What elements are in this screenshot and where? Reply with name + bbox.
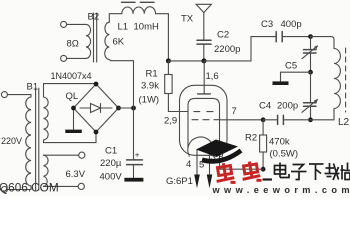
svg-text:2200p: 2200p xyxy=(214,44,240,55)
svg-text:(0.5W): (0.5W) xyxy=(270,149,299,160)
svg-text:4: 4 xyxy=(186,159,191,170)
svg-text:220V: 220V xyxy=(1,136,22,146)
terminal 6.3V bottom xyxy=(78,183,84,189)
svg-text:1N4007x4: 1N4007x4 xyxy=(51,71,92,81)
svg-text:G:6P1: G:6P1 xyxy=(166,176,193,187)
wire cathode pins 3,8 to node G xyxy=(220,148,264,169)
variable capacitor C5 lower gang xyxy=(310,72,312,102)
heater pin 5 lead with arrow xyxy=(209,150,211,176)
svg-text:TX: TX xyxy=(181,14,194,25)
wire 6.3V top xyxy=(44,154,79,156)
svg-text:L1: L1 xyxy=(118,22,129,33)
svg-text:1,6: 1,6 xyxy=(206,71,219,82)
svg-text:2,9: 2,9 xyxy=(164,116,177,127)
L2 adjustable core dashed line xyxy=(345,48,347,112)
tube cathode xyxy=(188,137,214,156)
L1 core bars xyxy=(122,1,136,3)
svg-text:+: + xyxy=(135,151,140,160)
node B+ xyxy=(131,106,136,111)
glyph dian xyxy=(275,163,290,178)
transformer B2 terminal bottom xyxy=(61,55,67,61)
svg-text:L2: L2 xyxy=(338,117,350,128)
transformer B2 6K winding xyxy=(105,22,110,59)
svg-text:C3: C3 xyxy=(261,19,273,30)
svg-text:6K: 6K xyxy=(113,37,125,48)
glyph xia xyxy=(309,164,324,180)
wire node B to C3 xyxy=(204,37,276,61)
tube inner screen structure xyxy=(188,98,220,148)
wire C4 node to L2 bottom xyxy=(311,119,335,121)
svg-text:C2: C2 xyxy=(217,30,229,41)
node A (L1/R1/C2 wire) xyxy=(166,58,171,63)
svg-text:400V: 400V xyxy=(100,172,123,183)
node bridge left xyxy=(71,106,76,111)
wire bridge output to B+ node xyxy=(119,107,134,109)
svg-text:(1W): (1W) xyxy=(139,95,160,106)
svg-text:10mH: 10mH xyxy=(134,22,159,33)
svg-text:7: 7 xyxy=(232,106,237,117)
transformer B2 core xyxy=(93,13,95,62)
tube plate bar xyxy=(198,93,211,95)
antenna TX xyxy=(196,4,211,12)
svg-text:B1: B1 xyxy=(27,82,39,93)
capacitor C2 xyxy=(197,39,211,41)
svg-text:Q606.COM: Q606.COM xyxy=(0,181,59,195)
node G (R2 bottom / cathode) xyxy=(261,167,266,172)
transformer B1 HV secondary winding xyxy=(44,84,49,143)
inductor L2 xyxy=(334,49,340,120)
transformer B1 primary winding 220V xyxy=(26,97,31,186)
terminal 6.3V top xyxy=(79,152,85,158)
svg-text:C5: C5 xyxy=(285,61,297,72)
svg-text:www.eeworm.com: www.eeworm.com xyxy=(212,185,350,195)
transformer B1 primary terminal (top) xyxy=(1,92,7,98)
wire 6.3V bottom xyxy=(44,185,79,187)
svg-text:QL: QL xyxy=(66,91,79,102)
glyph zi xyxy=(291,165,307,180)
node E (tank bottom) xyxy=(308,117,313,122)
transformer B1 primary terminal (bottom) xyxy=(1,187,7,193)
diode inside bridge xyxy=(80,107,112,109)
node F (R2 top) xyxy=(261,117,266,122)
wire screen grid to R2 node xyxy=(220,119,264,121)
node C (tank top) xyxy=(308,34,313,39)
transformer B1 core xyxy=(35,88,37,190)
wire xyxy=(7,95,31,97)
node D (between gangs) xyxy=(308,70,313,75)
wire xyxy=(67,57,86,59)
svg-text:400p: 400p xyxy=(281,19,302,30)
variable capacitor C5 upper gang xyxy=(310,37,312,50)
svg-text:C1: C1 xyxy=(105,146,117,157)
glyph zhan xyxy=(341,163,350,180)
wire R1 to grid xyxy=(168,111,187,113)
wire tank top to L2 xyxy=(311,37,335,49)
bridge rectifier QL diamond xyxy=(74,84,119,132)
wire node A to node B xyxy=(168,60,204,62)
svg-text:B2: B2 xyxy=(88,12,100,23)
svg-text:3.9k: 3.9k xyxy=(141,81,159,92)
watermark red characters 虫虫 xyxy=(214,158,262,188)
ground below C1 xyxy=(124,178,143,182)
tube screen grid (dashed) xyxy=(192,119,198,121)
svg-text:470k: 470k xyxy=(269,137,290,148)
inductor L1 xyxy=(122,7,156,14)
svg-text:200p: 200p xyxy=(277,101,298,112)
node bridge top xyxy=(94,82,99,87)
node bridge right xyxy=(116,106,121,111)
watermark text 电子下载站 xyxy=(263,163,350,181)
svg-text:R2: R2 xyxy=(245,133,257,144)
capacitor C4 xyxy=(277,115,279,124)
wire HV top to bridge xyxy=(44,83,97,85)
tube V1 envelope xyxy=(180,85,228,155)
wire node D to ground xyxy=(281,72,311,81)
wire HV bottom to bridge xyxy=(44,132,97,143)
wire xyxy=(7,186,31,190)
svg-text:R1: R1 xyxy=(146,69,158,80)
svg-text:6.3V: 6.3V xyxy=(66,169,86,180)
transformer B2 8ohm winding xyxy=(86,24,91,58)
resistor R2 xyxy=(260,135,267,152)
wire xyxy=(67,23,86,25)
node bridge bottom xyxy=(94,130,99,135)
ground (C5 rotor) xyxy=(273,81,289,85)
resistor R1 xyxy=(165,75,172,94)
svg-text:220µ: 220µ xyxy=(100,158,122,169)
transformer B2 terminal top xyxy=(61,21,67,27)
tube control grid (dashed) xyxy=(194,111,200,113)
wire 6K bottom to B+ xyxy=(109,60,133,109)
capacitor C3 xyxy=(275,32,277,42)
wire C3 to tank xyxy=(282,36,310,38)
transformer B1 6.3V winding xyxy=(44,155,49,186)
node B (C2/plate) xyxy=(202,58,207,63)
tube plate lead xyxy=(203,61,205,94)
wire 6K top to L1 xyxy=(109,14,122,23)
wire L1 to node xyxy=(156,14,169,61)
ground below bridge left corner xyxy=(73,108,75,129)
svg-text:C4: C4 xyxy=(259,101,271,112)
svg-text:8Ω: 8Ω xyxy=(67,39,79,50)
watermark graduation cap logo xyxy=(196,140,241,162)
capacitor C1 plates xyxy=(127,159,143,161)
wire B+ down to C1 xyxy=(133,108,135,160)
heater pin 4 lead with arrow xyxy=(196,150,198,176)
glyph zai xyxy=(325,163,340,180)
